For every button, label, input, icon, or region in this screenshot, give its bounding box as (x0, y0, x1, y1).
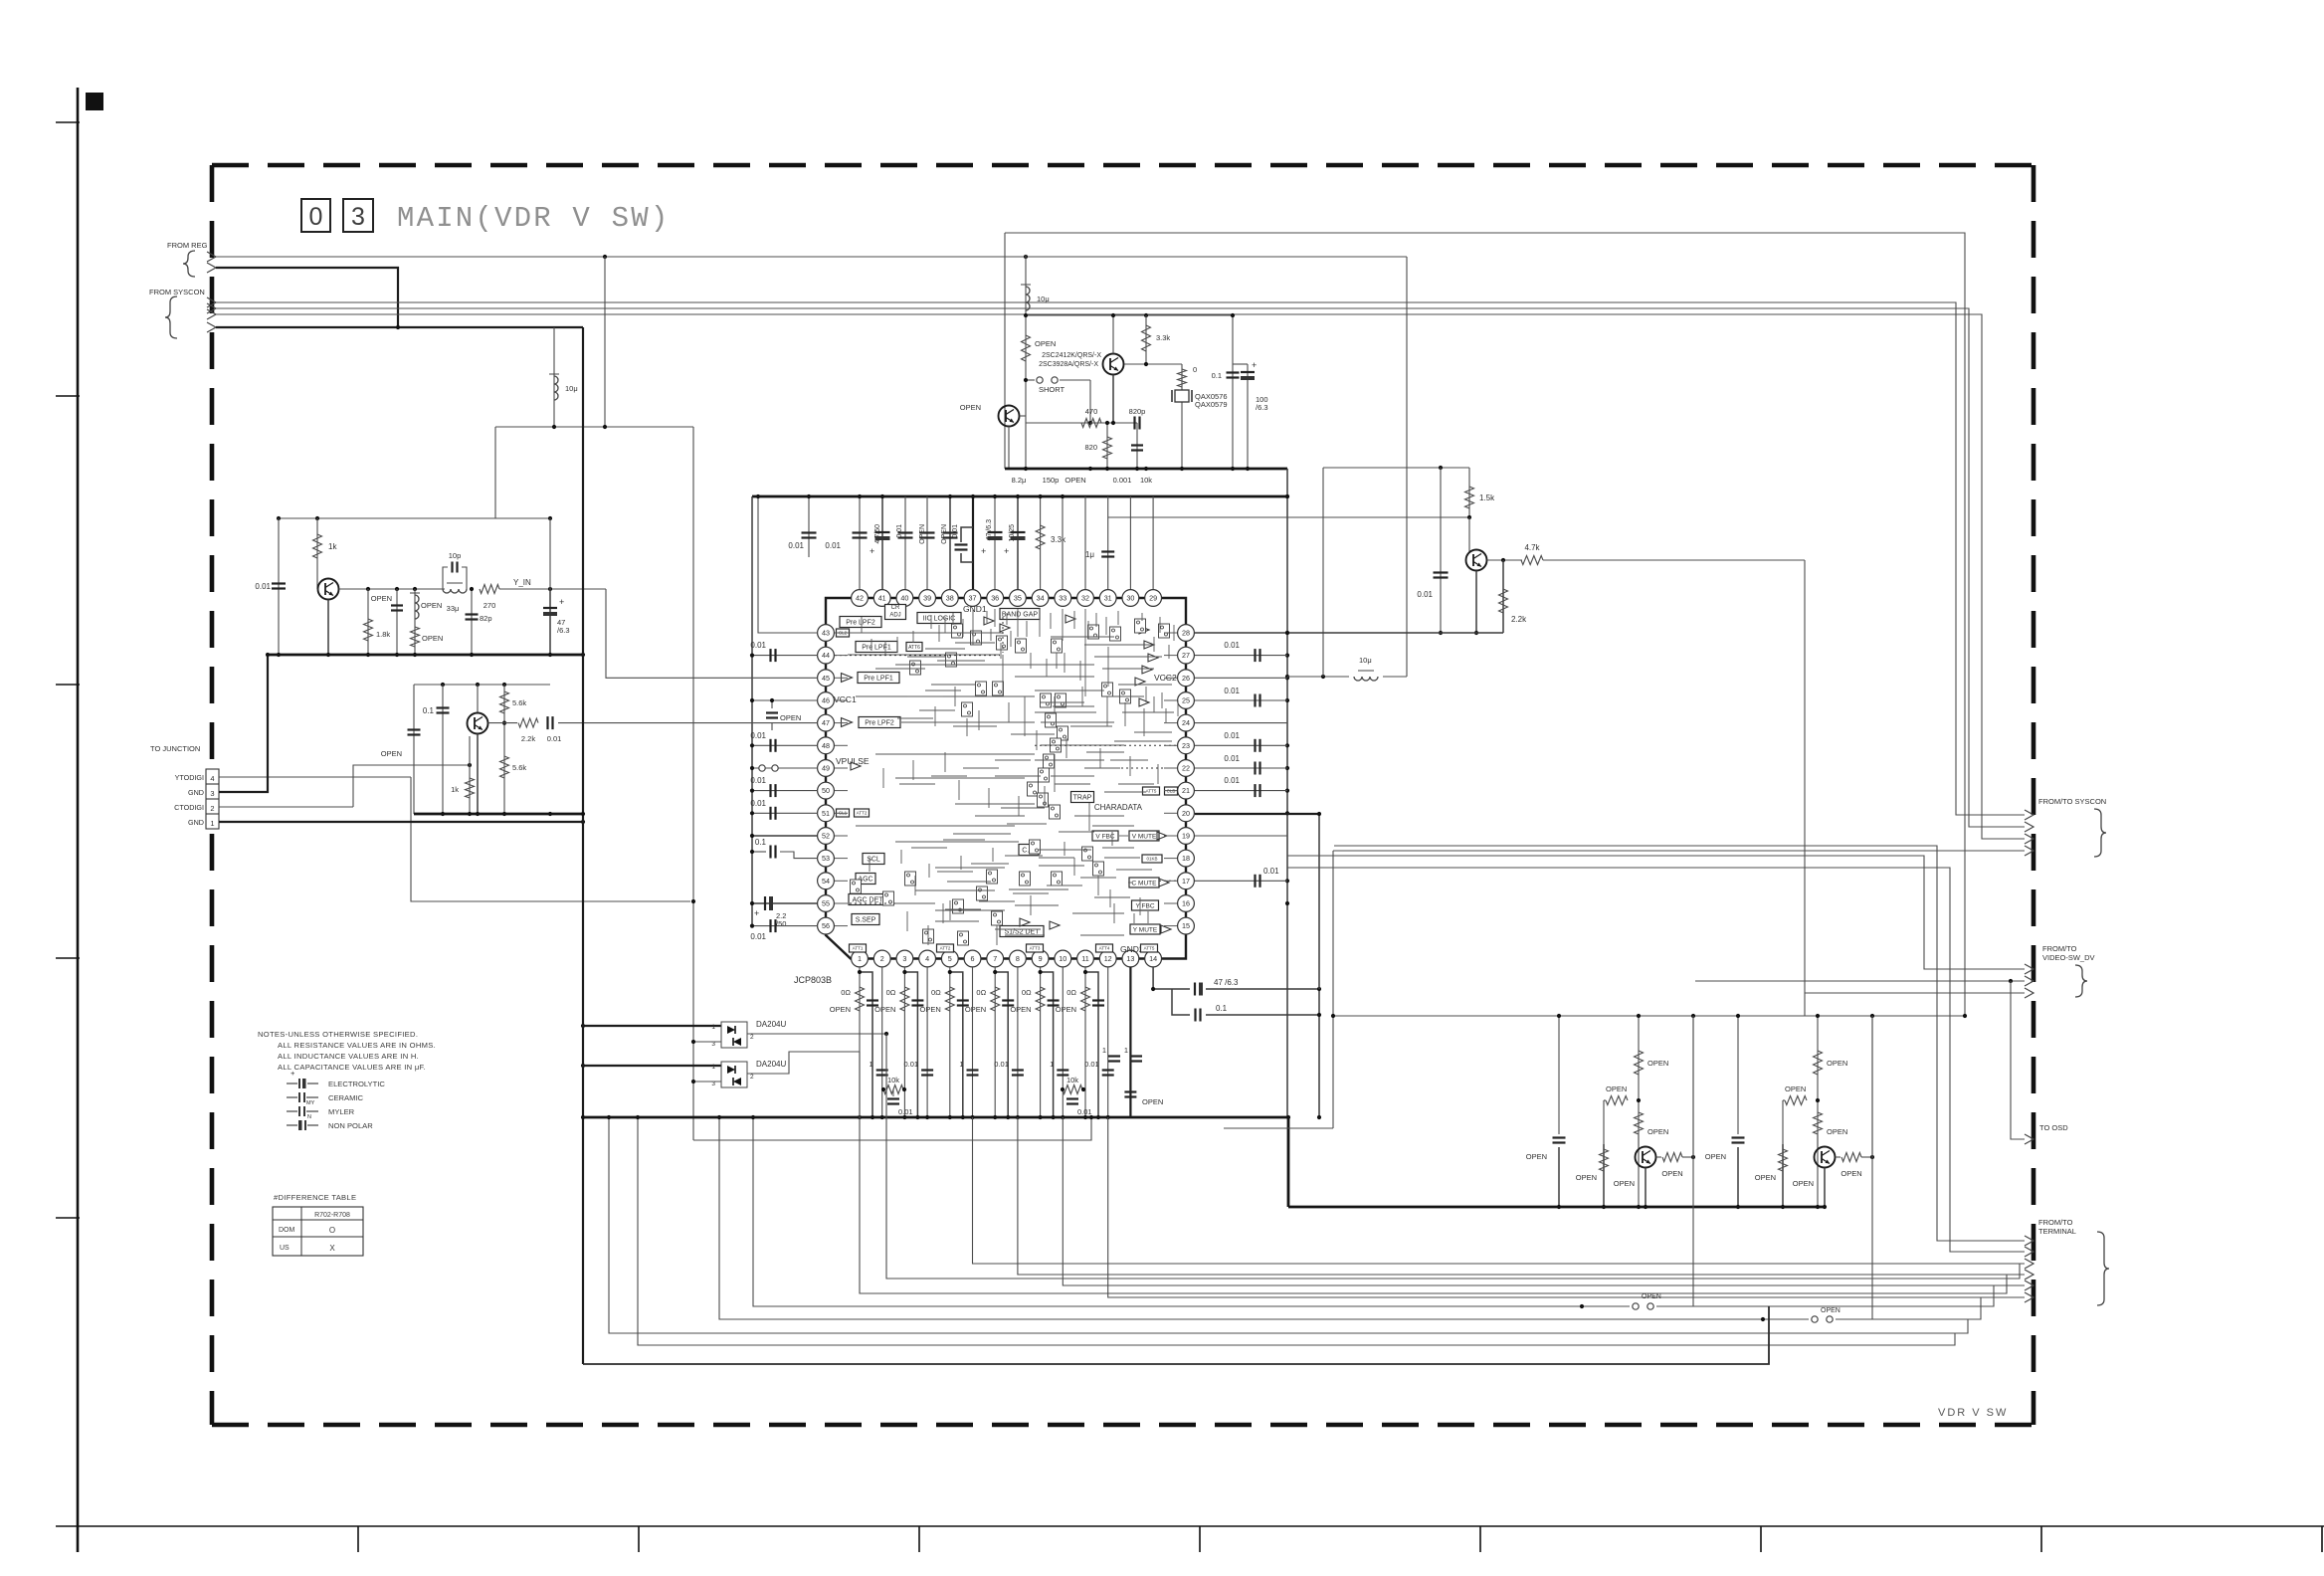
svg-text:ATT2: ATT2 (857, 811, 868, 816)
wire Q emitter cluster A (327, 600, 329, 656)
resistor OPEN mid (1635, 1112, 1644, 1134)
wire vertical x1414 to FROM REG net (1406, 257, 1408, 677)
svg-text:2.2k: 2.2k (1511, 615, 1527, 624)
resistor OPEN top circuit (1022, 335, 1031, 361)
svg-text:0.01: 0.01 (1077, 1107, 1092, 1116)
bottom nest line H3 with jumper OPEN (753, 1117, 1630, 1306)
title page-number box 3 (343, 199, 373, 232)
resistor 2.2k (1502, 560, 1504, 633)
wire pin29 column (1152, 496, 1154, 599)
cap 0.01 pin56 (752, 925, 818, 927)
below-IC even pin columns with caps (881, 967, 883, 1117)
cluster B ground rail y818 (414, 813, 583, 816)
svg-text:25: 25 (1182, 696, 1190, 705)
wire 1.5k feed y470 (1323, 467, 1469, 469)
wire FROM SYSCON 4 dark run (216, 326, 583, 328)
svg-text:0.01: 0.01 (750, 776, 766, 785)
svg-text:3: 3 (210, 789, 214, 798)
connector FROM SYSCON arrow 2 (207, 303, 216, 313)
svg-text:21: 21 (1182, 786, 1190, 795)
svg-text:36: 36 (991, 594, 999, 603)
resistor OPEN left-lower (1782, 1144, 1784, 1207)
svg-text:FROM/TO SYSCON: FROM/TO SYSCON (2038, 797, 2106, 806)
svg-text:0Ω: 0Ω (841, 988, 851, 997)
svg-text:16: 16 (1182, 899, 1190, 908)
resistor 1.5k (1468, 468, 1470, 519)
connector FROM/TO SYSCON brace (2094, 809, 2106, 857)
svg-text:0Ω: 0Ω (886, 988, 896, 997)
svg-text:Y FBC: Y FBC (1135, 902, 1154, 909)
svg-text:35: 35 (1014, 594, 1022, 603)
svg-text:82p: 82p (480, 614, 492, 623)
svg-text:10μ: 10μ (565, 384, 578, 393)
svg-text:18: 18 (1182, 854, 1190, 863)
svg-text:01KB: 01KB (1146, 857, 1157, 862)
svg-text:0.01: 0.01 (750, 641, 766, 650)
bottom nest: terminal arrow feeds from below IC (973, 1117, 2026, 1264)
IC small boxes bottom ATT1-ATT5 (850, 944, 867, 952)
svg-text:3: 3 (902, 954, 906, 963)
svg-text:S.SEP: S.SEP (856, 916, 876, 923)
svg-text:1: 1 (959, 1060, 963, 1069)
svg-text:2: 2 (880, 954, 884, 963)
svg-text:OPEN: OPEN (1793, 1179, 1814, 1188)
svg-text:0.01: 0.01 (1224, 754, 1240, 763)
wire y860 run to video connector (1287, 856, 2025, 969)
svg-text:OPEN: OPEN (381, 749, 402, 758)
capacitor col x1143 (1136, 423, 1138, 469)
wire left bus x586 (582, 327, 584, 1364)
wire FROM SYSCON 2 long run (216, 308, 2025, 827)
svg-text:Pre LPF1: Pre LPF1 (862, 644, 891, 651)
wire y872 run to terminal2 (1287, 868, 2025, 1252)
svg-text:22: 22 (1182, 764, 1190, 773)
transistor Q 2SC2412K (1103, 354, 1124, 375)
legend ceramic symbol (287, 1096, 297, 1098)
wire top circuit column x1031 (1025, 255, 1027, 469)
wire y1134 stub (1224, 1127, 1333, 1129)
svg-text:46: 46 (822, 696, 830, 705)
svg-text:0.01: 0.01 (898, 1107, 913, 1116)
transistor Q right of IC (1468, 517, 1470, 553)
cluster A top rail y521 (279, 517, 552, 519)
svg-text:47 /6.3: 47 /6.3 (1214, 978, 1239, 987)
wire 4.7k out run (1543, 559, 1805, 561)
svg-text:2.2k: 2.2k (521, 734, 535, 743)
svg-text:23: 23 (1182, 741, 1190, 750)
svg-text:CHARADATA: CHARADATA (1094, 803, 1143, 812)
bottom nest line H1 (886, 1034, 2020, 1279)
cap 47/6.3 electrolytic right of pin14 (1153, 967, 1190, 989)
svg-text:ATT3: ATT3 (1030, 946, 1041, 951)
wire Q collector row (1487, 559, 1523, 561)
svg-text:1: 1 (870, 1060, 873, 1069)
cap OPEN pin39 column (926, 496, 928, 599)
svg-text:ELECTROLYTIC: ELECTROLYTIC (328, 1080, 385, 1088)
svg-text:OPEN: OPEN (919, 524, 926, 544)
svg-text:0.01: 0.01 (1084, 1060, 1099, 1069)
svg-text:ADJ: ADJ (889, 613, 900, 619)
wire CHARADATA thick y818 (1195, 813, 1319, 815)
IC switch boxes (952, 624, 963, 638)
svg-text:OPEN: OPEN (1065, 476, 1085, 485)
jumper pin49 VPULSE (752, 767, 818, 769)
wire pin28 row to cluster (1195, 632, 1503, 634)
svg-text:AGC DET: AGC DET (852, 896, 883, 903)
bottom nest line H6 (638, 1117, 1955, 1345)
wire diode1 pin3 feed (693, 1041, 721, 1043)
wire Q base row (1124, 363, 1182, 365)
wire x1340 vertical (1332, 851, 1334, 1128)
svg-text:CERAMIC: CERAMIC (328, 1093, 364, 1102)
svg-text:8.2μ: 8.2μ (1012, 476, 1027, 485)
svg-text:N: N (307, 1114, 311, 1120)
svg-text:0.1: 0.1 (755, 838, 767, 847)
wire base stub (469, 736, 471, 765)
svg-text:CR: CR (891, 605, 900, 611)
svg-text:0: 0 (1193, 365, 1197, 374)
cap 0.01 cluster A (278, 518, 280, 655)
bottom nest line H2 (860, 1052, 2007, 1293)
svg-text:38: 38 (946, 594, 954, 603)
cap 0.01 pin50 (752, 790, 818, 792)
IC amp A1 (842, 674, 853, 683)
cap 0.1 pin53 branch (752, 851, 766, 853)
cap OPEN cluster B (413, 685, 415, 814)
wire pin33 column (1062, 496, 1064, 599)
wire Q emitter (1824, 1168, 1826, 1208)
wire FROM SYSCON 3 long run (216, 314, 2025, 839)
wire vertical x1330 (1322, 468, 1324, 677)
svg-text:41: 41 (878, 594, 886, 603)
svg-text:52: 52 (822, 832, 830, 841)
resistor 10k below pin2 (883, 1085, 903, 1094)
wire diode1 output (747, 1033, 886, 1035)
inductor 10u top circuit (1026, 287, 1030, 310)
cap OPEN (1732, 1136, 1745, 1138)
svg-text:TERMINAL: TERMINAL (2038, 1227, 2076, 1236)
cap 0.01 pin16 (1195, 880, 1287, 882)
svg-text:VDR V SW: VDR V SW (1938, 1407, 2008, 1419)
svg-text:55: 55 (822, 899, 830, 908)
svg-text:15: 15 (1182, 921, 1190, 930)
IC amp triangles right side (1139, 626, 1149, 634)
svg-text:54: 54 (822, 877, 830, 886)
cap 0.01 pin48 (752, 744, 818, 746)
svg-text:0Ω: 0Ω (976, 988, 986, 997)
inductor 33u with 10p cap (443, 589, 467, 593)
transistor Q cluster A (318, 579, 339, 600)
svg-text:820p: 820p (1129, 407, 1146, 416)
svg-text:OPEN: OPEN (1821, 1307, 1840, 1314)
inductor L 10u (left) (554, 376, 558, 400)
svg-text:+: + (290, 1069, 295, 1078)
IC small boxes near pin21 (1143, 787, 1160, 795)
svg-text:ALL INDUCTANCE VALUES ARE IN H: ALL INDUCTANCE VALUES ARE IN H. (278, 1052, 419, 1061)
svg-text:TRAP: TRAP (1073, 794, 1092, 801)
svg-text:MAIN(VDR V SW): MAIN(VDR V SW) (397, 202, 670, 235)
svg-text:4: 4 (210, 774, 214, 783)
wire inductor feed vertical x557 (553, 327, 555, 427)
svg-text:VIDEO-SW_DV: VIDEO-SW_DV (2042, 953, 2095, 962)
resistor OPEN horizontal (1785, 1096, 1807, 1105)
svg-text:OPEN: OPEN (1056, 1005, 1076, 1014)
connector FROM SYSCON arrow 4 (207, 322, 216, 332)
jumper SHORT (1026, 379, 1035, 381)
cap 0.01 pin51 (752, 812, 818, 814)
svg-text:OPEN: OPEN (422, 634, 443, 643)
wire Q output row (488, 722, 518, 724)
svg-text:47 /6.3: 47 /6.3 (986, 519, 993, 541)
svg-text:0: 0 (309, 203, 323, 231)
IC internal connection mesh (848, 632, 1003, 634)
wire video arrow2 feed (1695, 980, 2025, 982)
svg-text:OPEN: OPEN (1576, 1173, 1597, 1182)
svg-text:+: + (754, 908, 759, 918)
svg-text:ATT5: ATT5 (1144, 946, 1155, 951)
svg-text:TO OSD: TO OSD (2039, 1123, 2068, 1132)
svg-text:CTODIGI: CTODIGI (174, 803, 204, 812)
svg-text:GND: GND (188, 818, 204, 827)
svg-text:0.01: 0.01 (1224, 731, 1240, 740)
connector FROM/TO VIDEO-SW_DV arrows (2025, 964, 2033, 974)
resistor 1.8k (367, 589, 369, 655)
wire Y_IN run (499, 588, 606, 590)
right cluster at x=1747 top rail feeds (1737, 1016, 1739, 1075)
svg-text:47: 47 (822, 718, 830, 727)
svg-text:4.7k: 4.7k (1524, 543, 1540, 552)
svg-text:S1/S2 DET: S1/S2 DET (1004, 928, 1040, 935)
svg-text:+: + (559, 597, 564, 607)
wire TO OSD feed (2011, 981, 2025, 1139)
wire video arrow3 feed (1805, 992, 2025, 994)
cap 4.7/50 electrolytic pin41 column (881, 496, 883, 599)
svg-text:SCL: SCL (867, 856, 880, 863)
capacitor 820p (1133, 417, 1135, 430)
wire FROM SYSCON 1 long run (216, 302, 2025, 815)
wire GND1 pin37 column (972, 496, 974, 599)
connector FROM SYSCON arrow 1 (207, 297, 216, 307)
svg-text:34: 34 (1037, 594, 1045, 603)
svg-text:150p: 150p (1043, 476, 1060, 485)
svg-text:3.3k: 3.3k (1051, 535, 1066, 544)
svg-text:1: 1 (210, 819, 214, 828)
cap 47/6.3 electrolytic cluster A (549, 518, 551, 589)
svg-text:4: 4 (925, 954, 929, 963)
svg-text:NON POLAR: NON POLAR (328, 1121, 373, 1130)
wire output vertical (1871, 1016, 1873, 1157)
transistor Q OPEN (left) (999, 406, 1020, 427)
wire FROM REG 2 net (216, 268, 398, 327)
svg-text:7: 7 (993, 954, 997, 963)
wire long vertical x697 (692, 427, 694, 1140)
svg-text:OPEN: OPEN (960, 403, 981, 412)
IC block BAND GAP (1000, 609, 1040, 620)
resistor 3.3k pin34 column (1040, 496, 1042, 599)
svg-text:10k: 10k (1066, 1076, 1078, 1084)
svg-text:19: 19 (1182, 832, 1190, 841)
svg-text:0.01: 0.01 (825, 541, 841, 550)
wire pin47 feed (558, 722, 818, 724)
connector TO JUNCTION pin box (206, 769, 219, 829)
cap 2.2/50 electrolytic pin55 (752, 902, 818, 904)
svg-text:0.01: 0.01 (788, 541, 804, 550)
caps pins 12-13 columns (1129, 967, 1131, 1117)
svg-text:1k: 1k (328, 542, 337, 551)
svg-text:13: 13 (1126, 954, 1134, 963)
bottom nest line H5 (609, 1117, 1968, 1333)
svg-text:QAX0579: QAX0579 (1195, 400, 1228, 409)
svg-text:US: US (280, 1245, 290, 1252)
svg-text:GND: GND (188, 788, 204, 797)
connector FROM/TO TERMINAL brace (2097, 1232, 2109, 1305)
wire output vertical (1692, 1016, 1694, 1157)
resistor OPEN output (1656, 1156, 1662, 1158)
svg-text:5.6k: 5.6k (512, 763, 526, 772)
svg-text:27: 27 (1182, 651, 1190, 660)
svg-text:OPEN: OPEN (1785, 1084, 1806, 1093)
IC block IIC LOGIC (917, 613, 961, 624)
wire left nest horizontal y429 (495, 426, 693, 428)
svg-text:2: 2 (210, 804, 214, 813)
svg-text:ATT4: ATT4 (1099, 946, 1110, 951)
svg-text:Y_IN: Y_IN (513, 578, 531, 587)
svg-text:40: 40 (900, 594, 908, 603)
svg-text:OPEN: OPEN (1642, 1293, 1661, 1300)
IC block C MUTE (1129, 878, 1159, 887)
crystal QAX0576/QAX0579 (1181, 364, 1183, 469)
svg-text:0.01: 0.01 (952, 524, 959, 538)
svg-text:0.01: 0.01 (1224, 687, 1240, 695)
wire base feed (353, 765, 470, 806)
svg-text:29: 29 (1149, 594, 1157, 603)
svg-text:1: 1 (711, 1024, 715, 1031)
IC right pins 28-15 (1178, 625, 1195, 642)
wire row y425 (1026, 422, 1137, 424)
svg-text:Pre LPF2: Pre LPF2 (865, 719, 894, 726)
svg-text:OPEN: OPEN (1035, 339, 1056, 348)
wire x1326 return (1318, 989, 1320, 1117)
connector FROM SYSCON arrow 3 (207, 309, 216, 319)
svg-text:ATT5: ATT5 (1146, 789, 1157, 794)
connector FROM SYSCON brace (165, 296, 177, 338)
svg-text:+: + (1252, 360, 1257, 370)
connector FROM REG arrow 2 (207, 263, 216, 273)
svg-text:IIC LOGIC: IIC LOGIC (923, 615, 956, 622)
wire top nest rectangle (1005, 233, 1965, 1016)
svg-text:2: 2 (750, 1074, 754, 1081)
IC block SCL (863, 854, 884, 865)
wire diode2 pin3 feed (693, 1081, 721, 1083)
svg-text:DA204U: DA204U (756, 1020, 786, 1029)
legend non polar symbol (287, 1124, 297, 1126)
resistor 10k below pin11 (1063, 1085, 1082, 1094)
svg-text:3.3k: 3.3k (1156, 333, 1170, 342)
IC left cap rail x756 (751, 496, 753, 926)
resistor 4.7k (1521, 556, 1543, 565)
wire pin43 to bus riser (758, 496, 818, 633)
wire diode2 output (747, 1052, 860, 1074)
wire vertical to top circuit (1004, 233, 1006, 469)
svg-text:/6.3: /6.3 (1256, 403, 1268, 412)
wire pin45 Y_IN feed (606, 589, 818, 678)
svg-text:0.01: 0.01 (547, 734, 562, 743)
resistor 1k cluster A (316, 518, 318, 589)
bottom nest line H4 with jumper OPEN (719, 1117, 1809, 1319)
cap 0.01 (far left of bus) (808, 496, 810, 557)
connector FROM REG brace (183, 251, 195, 277)
svg-text:0.01: 0.01 (1224, 776, 1240, 785)
svg-text:1: 1 (1102, 1046, 1106, 1055)
below-IC odd pin columns with 0ohm resistors (859, 967, 861, 1117)
cap 0.01 pin42 column (859, 496, 861, 599)
svg-text:OPEN: OPEN (1606, 1084, 1627, 1093)
IC block V FBC (1092, 831, 1118, 841)
resistor OPEN upper (1638, 1016, 1640, 1207)
cap OPEN below pin13 (1124, 1090, 1136, 1092)
IC pin stubs (835, 632, 848, 634)
IC block Y MUTE (1130, 924, 1160, 934)
svg-text:OPEN: OPEN (1827, 1059, 1847, 1068)
diode DA204U lower (583, 1065, 721, 1067)
IC U1 JCP803B body outline (826, 598, 1186, 959)
svg-text:0Ω: 0Ω (1022, 988, 1032, 997)
below-IC GND bus y1123 (583, 1116, 1288, 1119)
cluster A ground rail y658 (268, 654, 583, 657)
wire CTODIGI (219, 806, 353, 808)
svg-text:OPEN: OPEN (1705, 1152, 1726, 1161)
GND bus corner down to cluster bus (1287, 1117, 1290, 1207)
cap 47/6.3 electrolytic pin36 column (994, 496, 996, 599)
wire pin30 column (1129, 496, 1131, 599)
svg-text:32: 32 (1081, 594, 1089, 603)
svg-text:V MUTE: V MUTE (1132, 833, 1157, 840)
svg-text:OPEN: OPEN (1661, 1169, 1682, 1178)
wire pin19 out (1195, 835, 1287, 837)
svg-text:39: 39 (923, 594, 931, 603)
svg-text:1: 1 (1050, 1060, 1054, 1069)
svg-text:0.01: 0.01 (750, 799, 766, 808)
resistor OPEN left-lower (1603, 1144, 1605, 1207)
svg-text:1.5k: 1.5k (1479, 493, 1495, 502)
title page-number box 0 (301, 199, 330, 232)
svg-text:42: 42 (856, 594, 864, 603)
capacitor 0.1 top right (1232, 315, 1234, 469)
wire junction box feeds (219, 776, 411, 778)
svg-text:+: + (1004, 546, 1009, 556)
IC block S1/S2 DET (1000, 926, 1044, 937)
svg-text:10p: 10p (449, 551, 462, 560)
svg-text:0.01: 0.01 (750, 731, 766, 740)
legend electrolytic symbol (287, 1083, 297, 1084)
svg-text:0.1: 0.1 (423, 706, 435, 715)
resistor OPEN output (1836, 1156, 1841, 1158)
svg-text:1: 1 (1124, 1046, 1128, 1055)
wire y520 к 1.5k junction (1108, 516, 1469, 518)
svg-text:5: 5 (948, 954, 952, 963)
svg-text:5.6k: 5.6k (512, 698, 526, 707)
connector FROM/TO SYSCON arrows (2025, 810, 2033, 820)
svg-text:0.01: 0.01 (255, 582, 271, 591)
svg-text:OPEN: OPEN (941, 524, 948, 544)
svg-text:OPEN: OPEN (371, 594, 392, 603)
cap 1u pin31 column (1107, 496, 1109, 599)
svg-text:10: 10 (1059, 954, 1066, 963)
svg-text:0.1: 0.1 (1216, 1004, 1228, 1013)
svg-text:OPEN: OPEN (965, 1005, 986, 1014)
svg-text:0.01: 0.01 (896, 524, 903, 538)
svg-text:FROM/TO: FROM/TO (2038, 1218, 2073, 1227)
